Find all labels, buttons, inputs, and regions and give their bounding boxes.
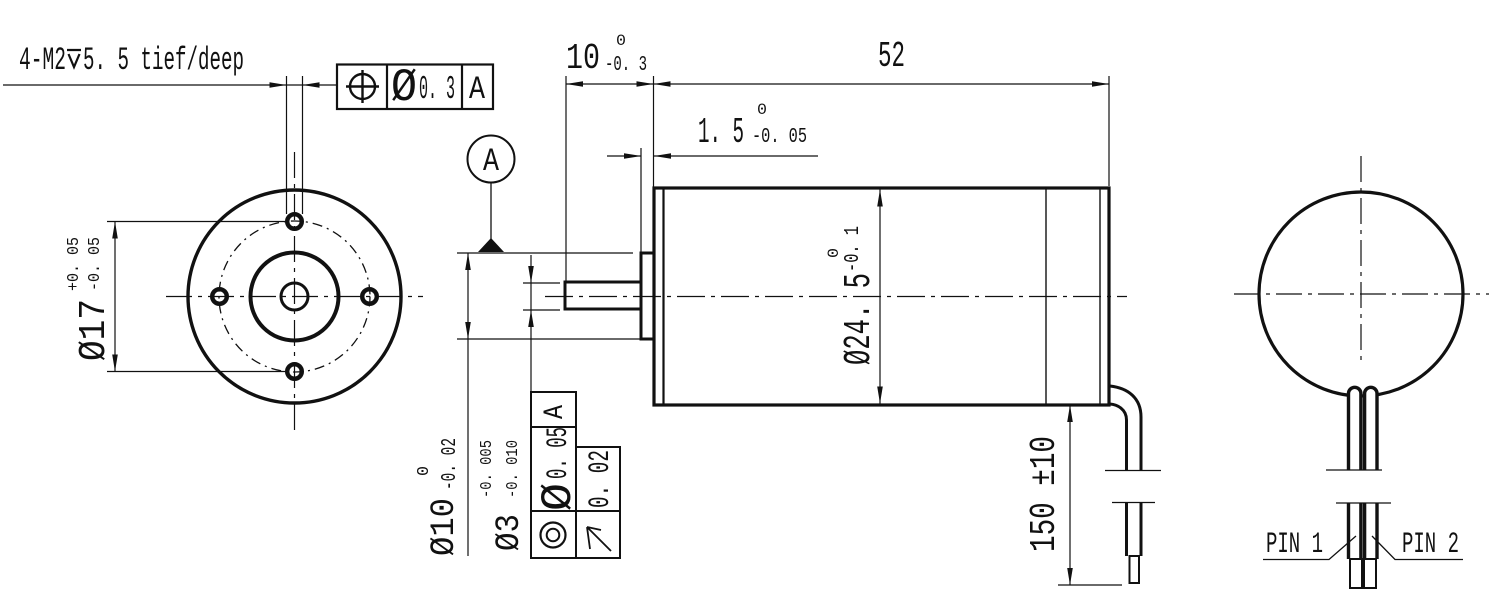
body rear cap line xyxy=(1045,188,1047,405)
svg-text:A: A xyxy=(469,71,486,108)
svg-text:0. 05: 0. 05 xyxy=(542,427,576,479)
svg-text:+0. 05: +0. 05 xyxy=(65,237,84,291)
frame divider 1 xyxy=(386,65,388,110)
dim10 arrow right xyxy=(637,81,654,87)
svg-text:10: 10 xyxy=(566,38,600,79)
position tolerance frame xyxy=(337,65,493,110)
leader arrow left-pointing xyxy=(303,82,320,88)
pilot flange xyxy=(641,253,654,339)
svg-text:0: 0 xyxy=(825,248,843,258)
leader line for thread callout xyxy=(3,84,337,86)
dia10 dimension line xyxy=(467,253,469,556)
svg-text:Ø3: Ø3 xyxy=(491,514,529,551)
rear wire right lower xyxy=(1365,503,1377,559)
dim10 extension at shaft tip xyxy=(565,76,567,281)
leader arrow right-pointing xyxy=(270,82,287,88)
dim1.5 left tail xyxy=(607,155,641,157)
dia24.5 arrow down xyxy=(877,387,883,404)
front view bolt circle (dash-dot) xyxy=(219,221,370,372)
depth symbol xyxy=(67,50,81,67)
rear break line lower xyxy=(1336,502,1391,504)
dia17 arrow up xyxy=(112,222,118,239)
svg-text:-0. 02: -0. 02 xyxy=(439,438,462,490)
dia10 arrow down xyxy=(465,322,471,339)
rear wire left lower xyxy=(1349,503,1361,559)
svg-text:150 ±10: 150 ±10 xyxy=(1024,436,1065,552)
svg-text:4-M2: 4-M2 xyxy=(19,42,66,79)
svg-text:PIN 2: PIN 2 xyxy=(1402,528,1459,562)
dim1.5 extension at flange face xyxy=(640,148,642,253)
dia3 extension tick bottom xyxy=(523,309,560,311)
rear view vertical centerline xyxy=(1360,156,1362,362)
wire stripped end xyxy=(1130,556,1140,583)
front view horizontal centerline xyxy=(166,296,423,298)
svg-text:Ø10: Ø10 xyxy=(426,498,464,556)
dim52 arrow right xyxy=(1092,81,1109,87)
dim1.5 arrow right-pointing xyxy=(624,153,641,159)
svg-text:52: 52 xyxy=(878,36,905,77)
frame divider 2 xyxy=(461,65,463,110)
svg-text:A: A xyxy=(483,143,500,180)
rear stripped end right xyxy=(1364,559,1376,588)
svg-text:-0. 1: -0. 1 xyxy=(842,226,865,272)
dia17 dimension line xyxy=(114,222,116,372)
dia3 dimension line xyxy=(530,255,532,558)
body rear inner line xyxy=(1099,188,1101,405)
dia3 extension tick top xyxy=(523,282,560,284)
svg-text:-0. 3: -0. 3 xyxy=(605,54,647,77)
runout frame xyxy=(576,447,620,558)
shaft xyxy=(565,282,641,309)
front view hole top xyxy=(287,214,302,229)
svg-text:0: 0 xyxy=(616,32,626,50)
dim150 arrow down xyxy=(1067,568,1073,585)
runout symbol arrow xyxy=(587,527,611,551)
front view vertical centerline xyxy=(294,152,296,430)
front view hole bottom xyxy=(287,364,302,379)
dim52 extension at body rear xyxy=(1108,76,1110,186)
position symbol xyxy=(346,70,379,103)
datum A triangle xyxy=(478,238,504,252)
dia24.5 arrow up xyxy=(877,190,883,207)
dia10 extension line bottom xyxy=(457,338,647,340)
svg-text:PIN 1: PIN 1 xyxy=(1266,528,1323,562)
dia24.5 dimension line xyxy=(879,190,881,404)
svg-text:1. 5: 1. 5 xyxy=(698,112,744,153)
dia3 arrow up-pointing xyxy=(528,310,534,327)
concentricity frame xyxy=(531,392,576,558)
svg-text:5. 5 tief/deep: 5. 5 tief/deep xyxy=(83,42,244,79)
front view outer circle xyxy=(188,190,401,403)
dim150 extension bottom xyxy=(1058,584,1122,586)
dim10 arrow left xyxy=(566,81,583,87)
runout frame divider xyxy=(576,510,620,512)
hole projection line right xyxy=(302,76,304,214)
dia3 arrow down-pointing xyxy=(528,266,534,283)
svg-text:-0. 010: -0. 010 xyxy=(504,440,523,498)
wire lower right line xyxy=(1140,503,1143,557)
dia10 extension line top xyxy=(457,252,633,254)
svg-text:-0. 005: -0. 005 xyxy=(478,440,497,498)
datum A stem xyxy=(490,183,492,241)
wire exit curve outer xyxy=(1110,386,1141,470)
pin1 leader xyxy=(1263,536,1356,560)
rear view circle xyxy=(1259,192,1463,396)
dim1.5 arrow left-pointing xyxy=(654,153,671,159)
dia17 extension line bottom xyxy=(107,371,288,373)
dim150 arrow up xyxy=(1067,405,1073,422)
dia10 arrow up xyxy=(465,253,471,270)
front view shaft circle xyxy=(281,283,308,310)
concentricity symbol xyxy=(541,523,566,548)
dia17 arrow down xyxy=(112,355,118,372)
svg-text:Ø: Ø xyxy=(391,62,417,114)
svg-text:0. 3: 0. 3 xyxy=(419,71,455,108)
dim extension at body face xyxy=(653,76,655,187)
svg-text:0: 0 xyxy=(757,101,767,119)
front view hole left xyxy=(212,289,227,304)
dim52 arrow left xyxy=(654,81,671,87)
concentricity frame divider 2 xyxy=(531,510,576,512)
motor body xyxy=(654,188,1109,405)
rear break line upper xyxy=(1326,469,1382,471)
svg-text:-0. 05: -0. 05 xyxy=(752,126,807,149)
svg-text:0: 0 xyxy=(415,466,434,476)
dim10 dimension line xyxy=(566,83,654,85)
front view hole right xyxy=(362,289,377,304)
svg-text:A: A xyxy=(540,405,571,419)
side view centerline xyxy=(545,296,1127,298)
wire exit curve inner xyxy=(1110,404,1127,470)
hole projection line left xyxy=(286,76,288,214)
dim52 dimension line xyxy=(654,83,1110,85)
svg-text:Ø24. 5: Ø24. 5 xyxy=(838,273,881,365)
datum A balloon circle xyxy=(468,136,515,183)
rear wire left xyxy=(1349,387,1361,470)
dia17 extension line top xyxy=(107,221,288,223)
wire break line lower xyxy=(1112,502,1155,504)
pin2 leader xyxy=(1372,536,1463,560)
rear view horizontal centerline xyxy=(1234,293,1489,295)
svg-text:Ø17: Ø17 xyxy=(73,299,116,361)
rear stripped end left xyxy=(1350,559,1362,588)
wire break line upper xyxy=(1105,470,1161,472)
dim150 dimension line xyxy=(1069,405,1071,585)
front view pilot boss circle xyxy=(251,253,339,341)
body front inner line xyxy=(662,188,664,405)
concentricity frame divider 1 xyxy=(531,426,576,428)
rear wire right xyxy=(1365,387,1377,470)
wire lower left line xyxy=(1125,503,1128,557)
svg-text:0. 02: 0. 02 xyxy=(584,450,618,508)
svg-text:-0. 05: -0. 05 xyxy=(86,237,105,291)
dim1.5 right tail xyxy=(654,155,818,157)
